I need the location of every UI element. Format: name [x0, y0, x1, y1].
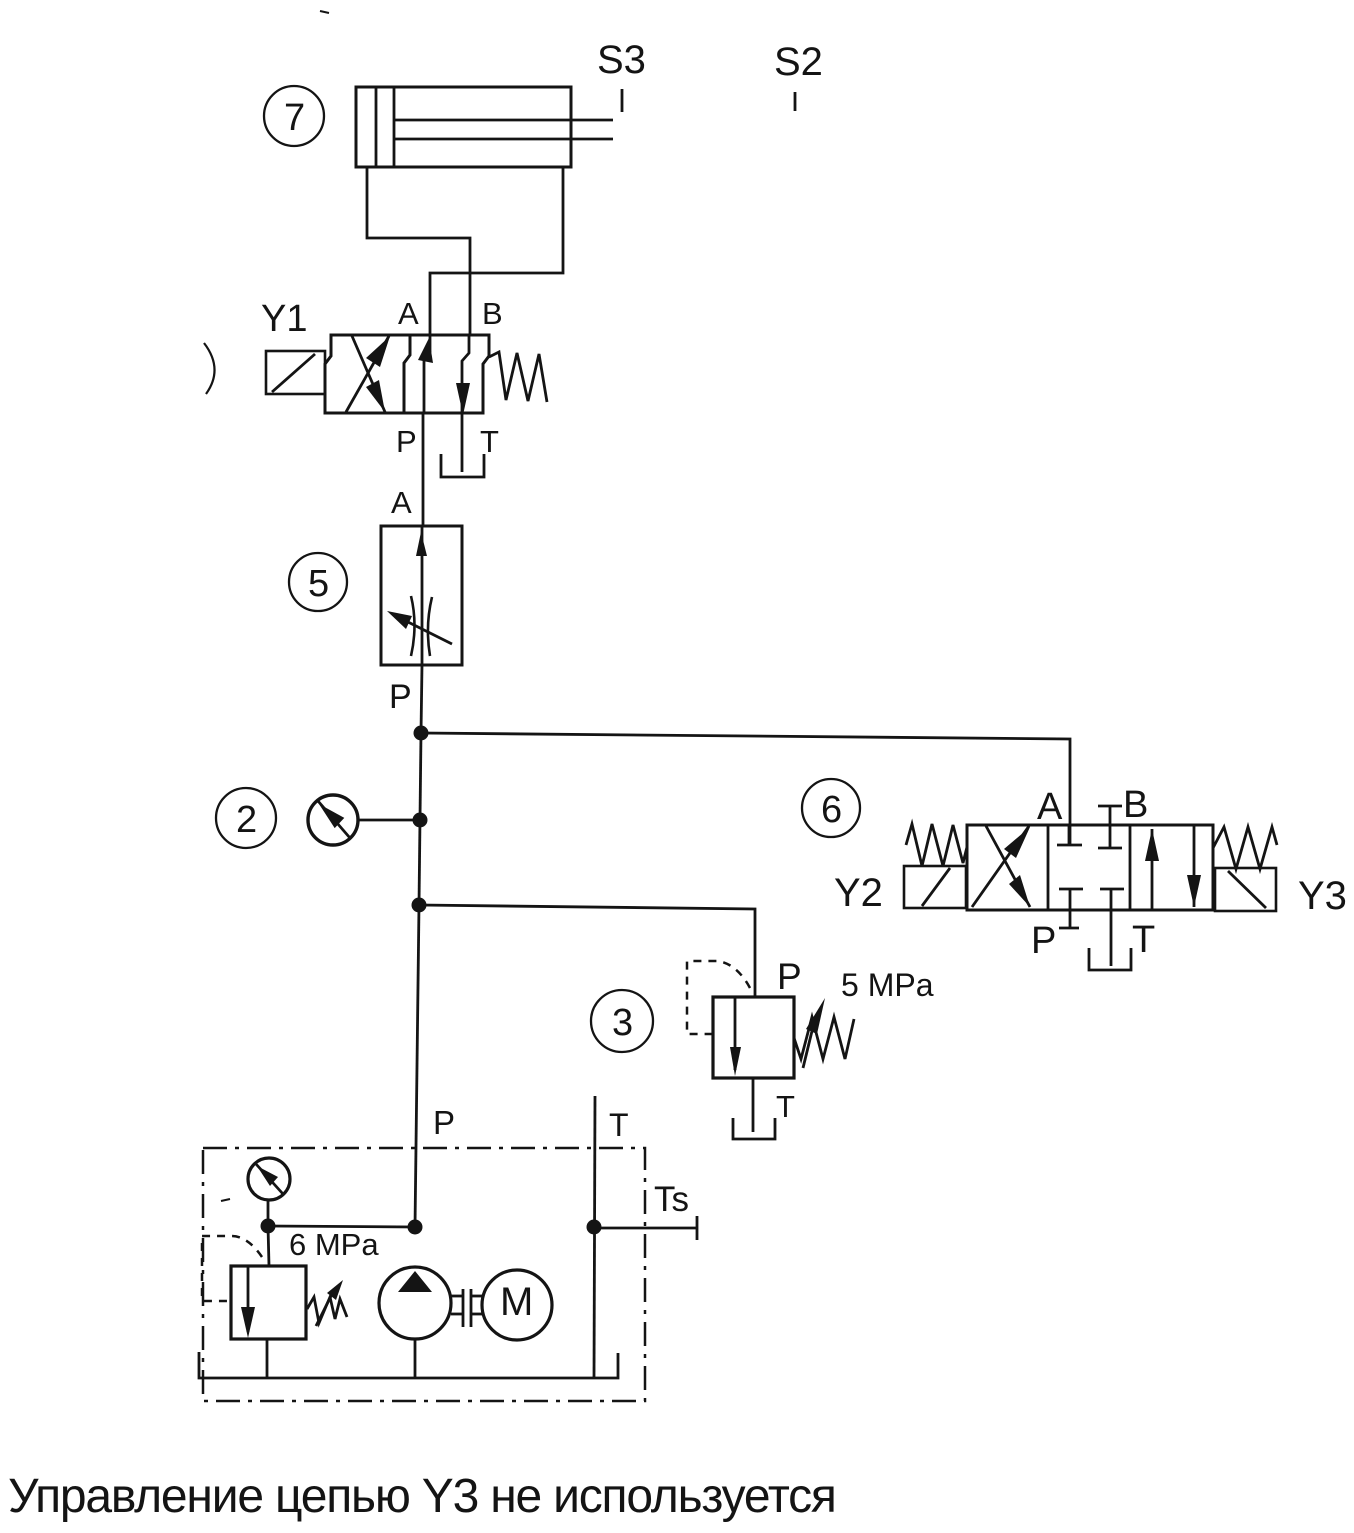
tank (power unit) — [199, 1352, 618, 1378]
svg-text:T: T — [1132, 919, 1155, 961]
valve 6 body (4/3, three positions) — [967, 825, 1213, 910]
svg-text:Ts: Ts — [654, 1180, 689, 1219]
wire throttle to junction J1 — [421, 665, 422, 733]
balloon 3 — [591, 990, 653, 1052]
cylinder 7 — [356, 87, 613, 167]
wire main line J3 to pump unit P — [415, 905, 419, 1227]
svg-text:T: T — [480, 424, 499, 459]
tank under valve 6 port T — [1089, 948, 1131, 970]
wire cylinder cap end to valve port B — [367, 167, 470, 335]
power unit enclosure (dash-dot) — [203, 1148, 645, 1401]
svg-text:A: A — [398, 296, 419, 331]
wire valve V1 port T to tank — [461, 413, 464, 472]
svg-text:A: A — [1037, 786, 1063, 828]
junction J6 (tank return) — [587, 1220, 602, 1235]
valve 6 straight arrows (right position) — [1145, 825, 1201, 910]
svg-text:2: 2 — [236, 799, 257, 841]
valve 6 closed-centre stubs (middle position) — [1057, 806, 1124, 966]
throttle valve 5 — [381, 526, 462, 665]
svg-text:Управление цепью Y3 не использ: Управление цепью Y3 не используется — [8, 1470, 836, 1523]
svg-text:M: M — [500, 1280, 533, 1324]
wire J3 to relief valve 3 — [419, 905, 755, 997]
svg-text:3: 3 — [612, 1002, 633, 1044]
wire valve V1 port P to throttle valve — [422, 413, 425, 526]
wire tank return T — [594, 1096, 595, 1378]
balloon 7 — [264, 86, 324, 146]
svg-text:P: P — [1031, 920, 1056, 962]
svg-text:5: 5 — [308, 563, 329, 605]
svg-text:P: P — [777, 956, 802, 997]
spring at valve 6 left end — [906, 824, 967, 866]
motor M — [482, 1270, 552, 1340]
wire cylinder rod end to valve port A — [430, 168, 563, 335]
solenoid Y1 — [261, 298, 325, 394]
junction J5 (pump outlet P) — [408, 1220, 423, 1235]
junction J3 — [412, 898, 427, 913]
solenoid Y2 — [834, 866, 966, 915]
wire relief valve 1 to tank — [266, 1339, 269, 1378]
solenoid Y3 — [1215, 868, 1347, 918]
relief valve 3 pilot line (dashed) — [687, 961, 750, 1034]
artifact tick near gauge — [221, 1199, 230, 1201]
svg-text:B: B — [1123, 784, 1148, 826]
relief valve 1 adjust arrow — [316, 1280, 343, 1326]
relief valve 3 adjust arrow — [803, 998, 825, 1068]
svg-text:S3: S3 — [597, 38, 646, 82]
svg-text:Y3: Y3 — [1298, 874, 1347, 918]
valve V1 body (4/2, two positions) — [325, 335, 489, 413]
valve V1 straight arrows (right position) — [418, 335, 470, 415]
svg-text:P: P — [433, 1104, 455, 1141]
svg-text:5 MPa: 5 MPa — [841, 967, 934, 1003]
pressure gauge (power unit) — [248, 1158, 290, 1225]
pressure gauge 2 — [308, 795, 419, 845]
wire J4 to relief valve 1 — [268, 1226, 269, 1266]
spring at valve V1 right end — [489, 352, 547, 402]
stray mark top — [320, 11, 329, 13]
svg-text:S2: S2 — [774, 40, 823, 84]
svg-text:6: 6 — [821, 789, 842, 831]
svg-text:P: P — [396, 424, 417, 459]
limit switch S2 — [774, 40, 823, 111]
pump 1 — [379, 1267, 451, 1378]
wire Ts tap — [594, 1180, 697, 1240]
junction J2 (gauge tap) — [413, 813, 428, 828]
tank under relief valve 3 — [733, 1118, 775, 1139]
wire J1 to valve 6 port A — [421, 733, 1070, 845]
svg-text:6 MPa: 6 MPa — [289, 1227, 379, 1262]
svg-text:Y1: Y1 — [261, 298, 307, 340]
svg-text:Y2: Y2 — [834, 871, 883, 915]
svg-text:7: 7 — [284, 97, 305, 139]
relief valve 3 spring — [794, 1017, 854, 1059]
wire relief valve 3 to tank — [752, 1078, 755, 1132]
valve 6 crossed arrows (left position) — [972, 826, 1030, 907]
wire J4 to J5 — [268, 1226, 415, 1227]
spring at valve 6 right end — [1213, 827, 1277, 869]
relief valve 3 body — [713, 997, 794, 1078]
wire main line J1 to J3 — [419, 733, 421, 905]
junction J1 — [414, 726, 429, 741]
svg-text:T: T — [776, 1089, 795, 1124]
valve V1 crossed arrows (left position) — [346, 336, 390, 412]
artifact parenthesis left of Y1 — [204, 343, 215, 394]
relief valve 1 pilot line (dashed) — [202, 1236, 262, 1301]
balloon 2 — [216, 788, 276, 848]
tank under valve V1 — [441, 454, 484, 477]
junction J4 (gauge / relief tap) — [261, 1219, 276, 1234]
balloon 5 — [289, 553, 347, 611]
svg-text:T: T — [609, 1107, 629, 1143]
relief valve 1 body (6 MPa) — [231, 1266, 306, 1339]
coupling pump-motor — [451, 1289, 483, 1327]
relief valve 1 spring — [307, 1297, 347, 1323]
balloon 6 — [802, 779, 860, 837]
svg-text:P: P — [389, 678, 412, 716]
svg-text:A: A — [391, 485, 412, 520]
limit switch S3 — [597, 38, 646, 112]
svg-text:B: B — [482, 296, 503, 331]
